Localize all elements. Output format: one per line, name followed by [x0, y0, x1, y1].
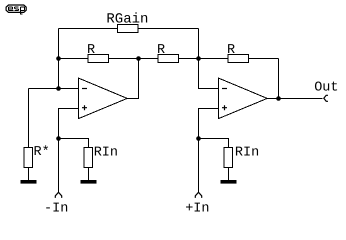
terminal -In caret — [55, 192, 61, 198]
resistor R* box — [24, 148, 33, 168]
svg-text:-In: -In — [44, 202, 68, 217]
svg-text:+In: +In — [185, 202, 209, 217]
terminal Out chevron — [324, 95, 328, 101]
node junction -In — [56, 136, 61, 141]
U1 minus sign — [82, 88, 87, 90]
U2 minus sign — [222, 88, 227, 90]
ground bar R* — [21, 180, 37, 184]
node junction output — [276, 96, 281, 101]
wire A1 minus horizontal — [29, 88, 79, 90]
terminal +In caret — [195, 192, 201, 198]
ESP logo — [6, 5, 26, 12]
op-amp U2 — [219, 78, 268, 119]
op-amp U1 — [79, 78, 128, 119]
U2 plus sign — [222, 105, 227, 110]
wire left feedback vertical — [58, 29, 60, 89]
resistor R3 box — [228, 55, 249, 63]
ESP logo letter e — [9, 7, 14, 11]
wire A1 out vertical — [127, 59, 139, 99]
wire A1 plus — [59, 109, 79, 193]
ESP logo letter s — [15, 7, 19, 11]
wire RGain top horizontal — [59, 28, 199, 30]
ground bar RIn2 — [221, 180, 237, 184]
svg-text:RGain: RGain — [106, 12, 148, 28]
resistor R2 box — [158, 55, 179, 63]
svg-text:R: R — [87, 43, 95, 58]
U1 plus sign — [82, 105, 87, 110]
svg-text:R*: R* — [34, 145, 50, 160]
wire A2 plus — [199, 109, 219, 193]
wire RIn2 branch — [199, 139, 229, 181]
resistor RIn1 box — [84, 148, 93, 168]
resistor R1 box — [88, 55, 109, 63]
wire right RGain vertical — [198, 29, 200, 59]
node junction R1-R2/A1out — [136, 56, 141, 61]
svg-text:RIn: RIn — [235, 146, 259, 161]
wire output — [267, 98, 323, 100]
svg-text:R: R — [157, 43, 165, 58]
node junction +In — [196, 136, 201, 141]
ESP logo letter p — [21, 7, 25, 14]
wire R* vertical — [28, 89, 30, 181]
node junction feedback-left — [56, 56, 61, 61]
wire R row horizontal — [59, 58, 279, 60]
node junction R2-R3/A2minus — [196, 56, 201, 61]
resistor RIn2 box — [224, 148, 233, 168]
svg-text:Out: Out — [314, 80, 338, 95]
svg-text:RIn: RIn — [94, 146, 118, 161]
resistor RGain box — [118, 25, 139, 33]
wire RIn1 branch — [59, 139, 89, 181]
node junction A1 minus — [56, 86, 61, 91]
ground bar RIn1 — [81, 180, 97, 184]
wire A2 minus vertical — [199, 59, 219, 89]
svg-text:R: R — [227, 43, 235, 58]
wire right feedback vertical — [278, 59, 280, 99]
